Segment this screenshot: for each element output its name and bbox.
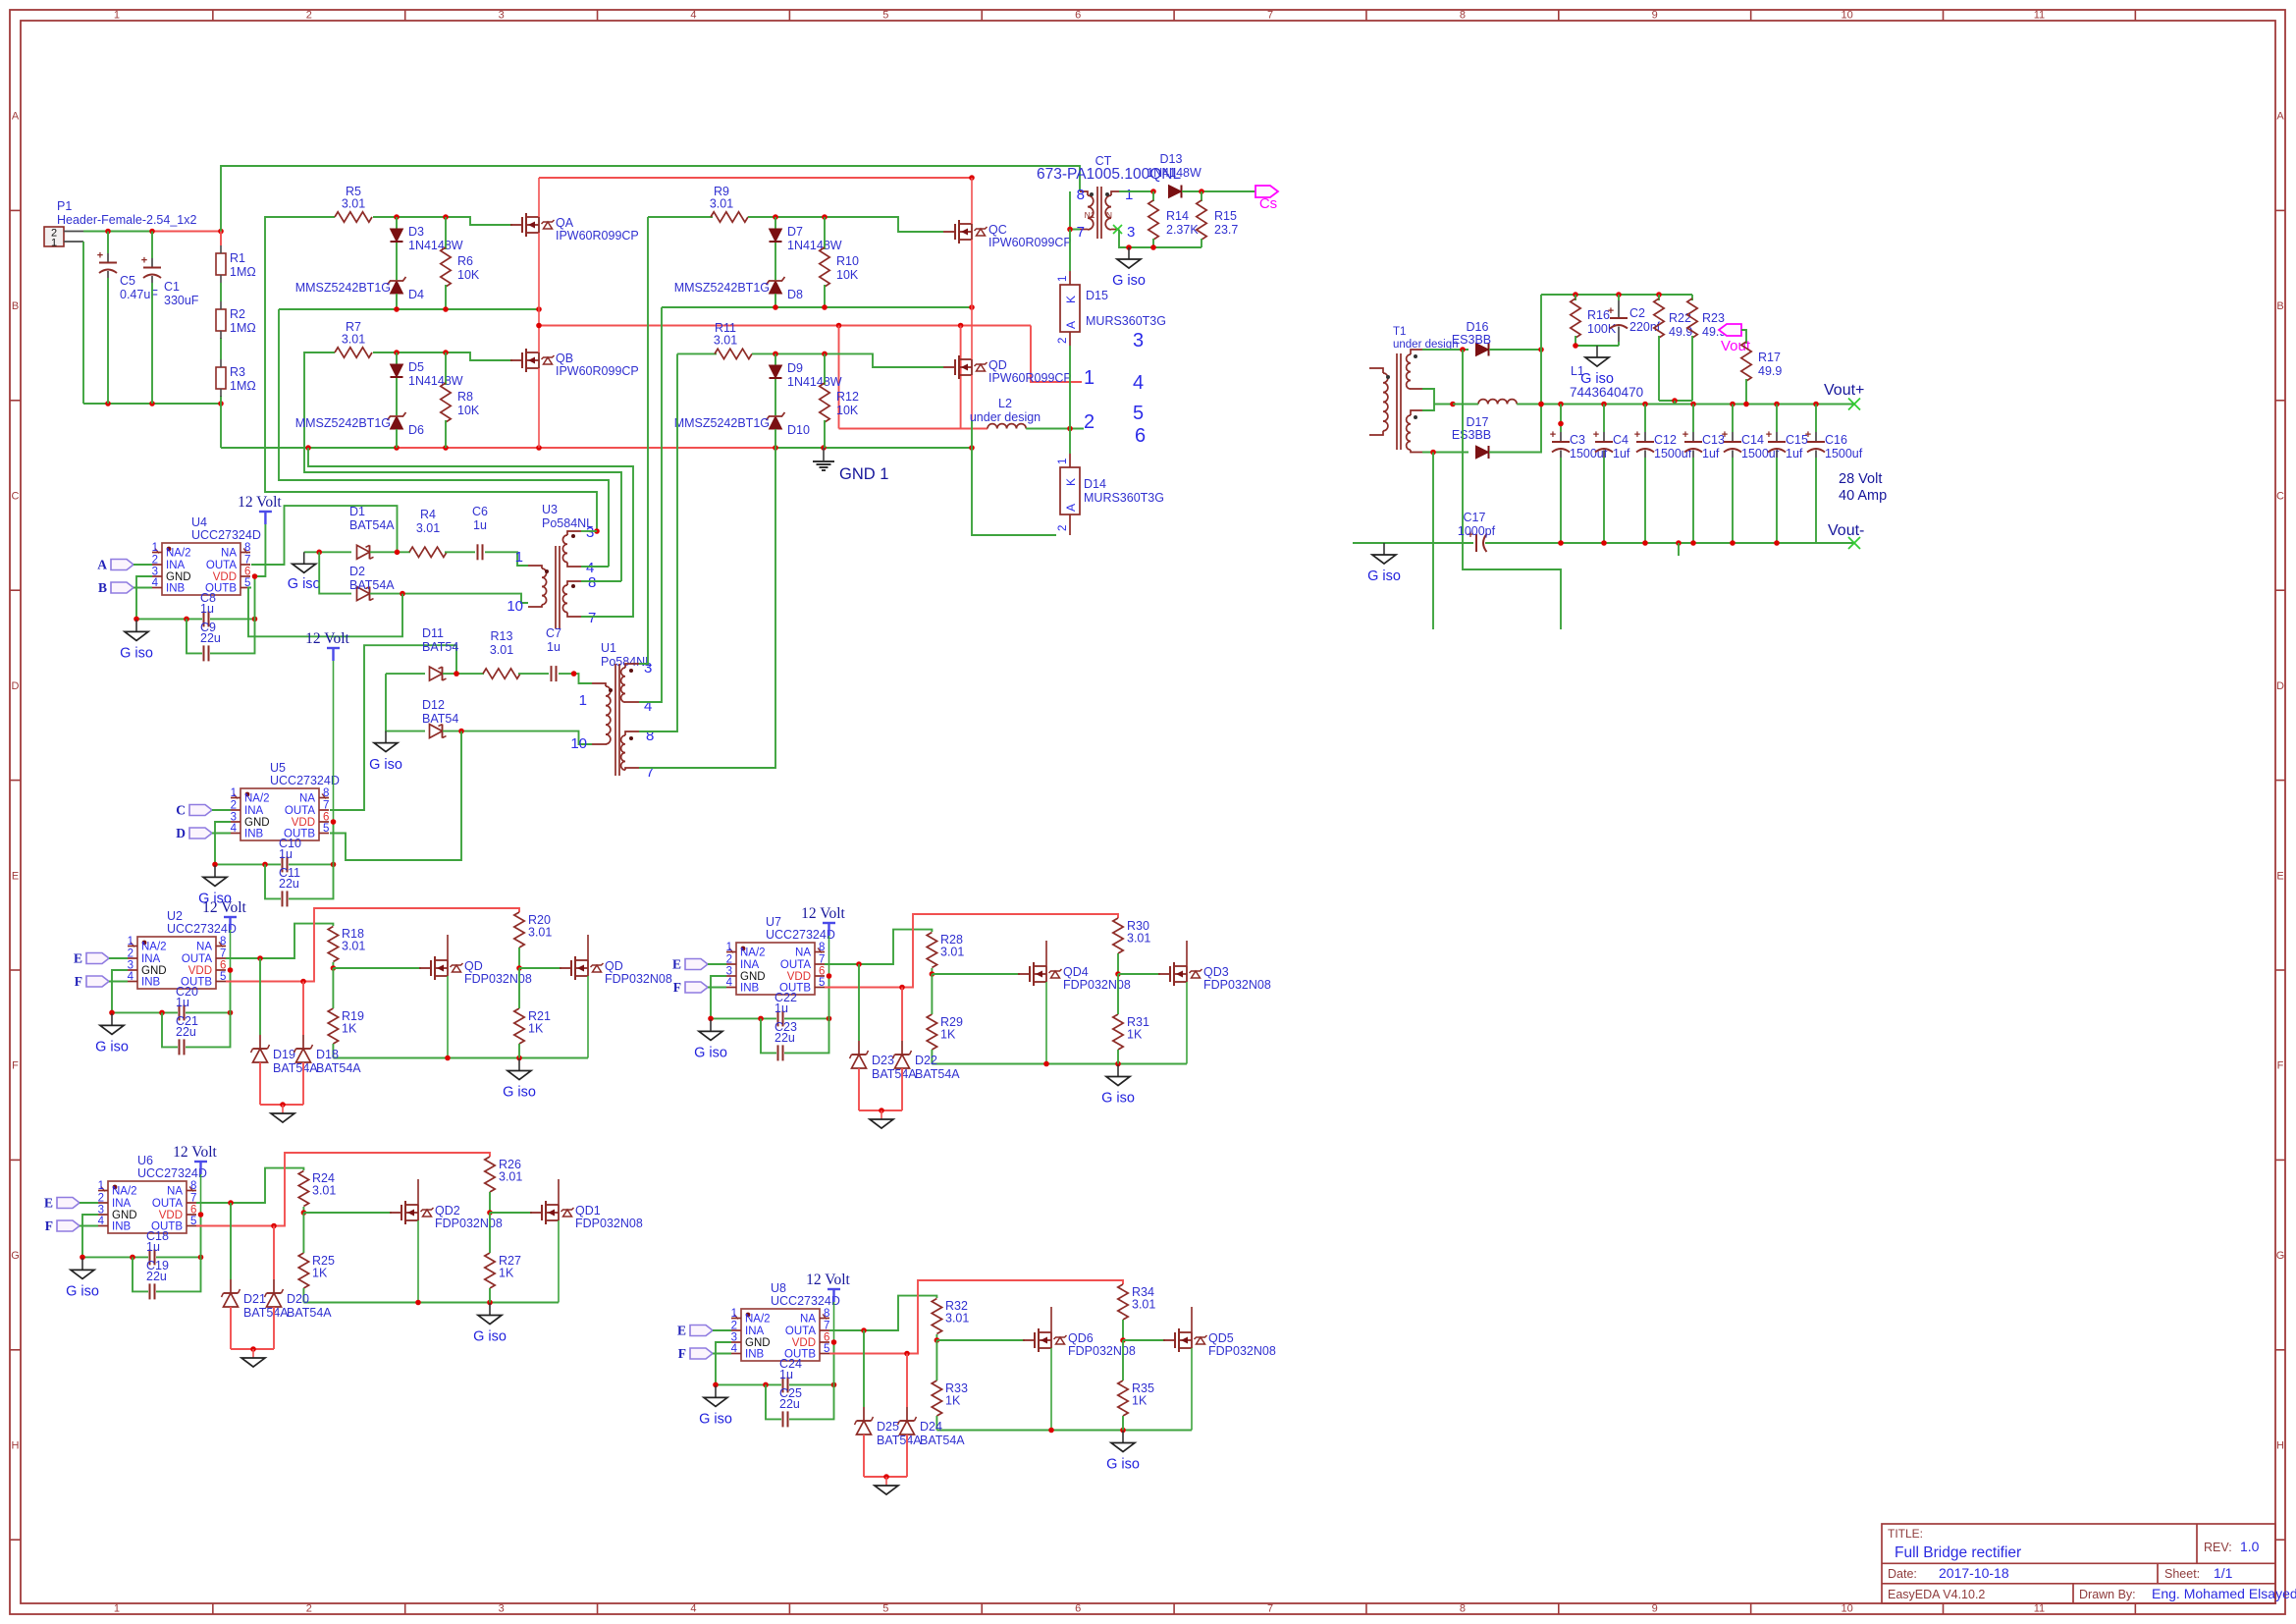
svg-text:D23: D23 <box>872 1054 894 1067</box>
net Vout- label <box>1828 522 1864 549</box>
svg-text:D10: D10 <box>787 423 810 437</box>
wire R5 to QA gate <box>373 214 512 225</box>
wire GND pin3 <box>82 1215 98 1257</box>
wire R9 left riser <box>648 216 713 218</box>
svg-text:3.01: 3.01 <box>312 1184 336 1198</box>
resistor R17 <box>1741 342 1783 405</box>
wire U3 pin7 riser <box>308 448 633 617</box>
svg-text:C7: C7 <box>546 626 561 640</box>
svg-text:IPW60R099CP: IPW60R099CP <box>556 364 639 378</box>
svg-text:BAT54A: BAT54A <box>349 518 395 532</box>
svg-text:D25: D25 <box>877 1420 899 1434</box>
svg-text:3.01: 3.01 <box>940 946 964 959</box>
svg-text:D6: D6 <box>408 423 424 437</box>
svg-text:R22: R22 <box>1669 311 1691 325</box>
diode D20 BAT54A <box>265 1226 333 1350</box>
ground G iso <box>198 865 232 906</box>
svg-text:6: 6 <box>819 966 825 978</box>
svg-text:10: 10 <box>507 598 523 615</box>
svg-text:G iso: G iso <box>95 1039 129 1055</box>
wire R lower lead1 <box>302 1213 304 1253</box>
svg-text:D2: D2 <box>349 565 365 578</box>
diode D13 1N4148W <box>1147 152 1201 198</box>
svg-text:MMSZ5242BT1G: MMSZ5242BT1G <box>674 416 770 430</box>
svg-text:R10: R10 <box>836 254 859 268</box>
svg-text:7: 7 <box>646 764 654 781</box>
svg-text:1: 1 <box>1057 276 1069 282</box>
svg-text:N1: N1 <box>1085 210 1095 220</box>
svg-text:6: 6 <box>1075 10 1081 22</box>
svg-text:C2: C2 <box>1629 306 1645 320</box>
power flag 12 Volt <box>238 494 282 524</box>
svg-text:1: 1 <box>152 542 158 554</box>
svg-text:1N4148W: 1N4148W <box>408 239 463 252</box>
svg-text:1K: 1K <box>499 1267 514 1280</box>
capacitor C23 <box>761 1018 829 1060</box>
svg-text:7: 7 <box>190 1193 196 1205</box>
svg-text:R16: R16 <box>1587 308 1610 322</box>
svg-text:3.01: 3.01 <box>342 940 365 953</box>
diode D11 BAT54 <box>386 626 458 680</box>
svg-text:C5: C5 <box>120 274 135 288</box>
svg-text:INB: INB <box>745 1349 765 1361</box>
svg-text:3: 3 <box>586 524 594 541</box>
svg-text:D20: D20 <box>287 1292 309 1306</box>
wire red drop 2 <box>960 326 962 429</box>
svg-text:1N4148W: 1N4148W <box>408 374 463 388</box>
svg-text:C4: C4 <box>1613 433 1629 447</box>
wire source rail <box>936 1428 1192 1434</box>
wire top net red segment <box>149 229 224 235</box>
transistor QB <box>510 309 639 448</box>
svg-text:1: 1 <box>98 1180 104 1192</box>
wire QA-QB mid red out <box>536 323 1031 329</box>
resistor R29 <box>927 1014 963 1050</box>
svg-text:NA/2: NA/2 <box>166 548 191 560</box>
resistor R15 <box>1197 191 1239 247</box>
wire R lower lead3 <box>489 1213 491 1253</box>
zener diode D4 <box>295 277 424 309</box>
ground G iso <box>369 731 402 773</box>
svg-text:G iso: G iso <box>369 757 402 773</box>
output flag Vout <box>1719 324 1751 354</box>
wire GND pin3 <box>711 976 726 1018</box>
svg-text:2: 2 <box>1084 411 1095 433</box>
diode D1 BAT54A <box>349 505 395 559</box>
svg-text:G: G <box>2276 1250 2285 1262</box>
svg-text:10: 10 <box>1841 1603 1852 1615</box>
svg-text:1: 1 <box>114 10 120 22</box>
svg-text:MMSZ5242BT1G: MMSZ5242BT1G <box>674 281 770 295</box>
svg-text:BAT54A: BAT54A <box>920 1434 965 1447</box>
diode D23 BAT54A <box>850 964 918 1110</box>
diode D2 BAT54A <box>349 565 395 601</box>
capacitor C14 <box>1722 405 1780 544</box>
wire R11 to QD gate <box>752 352 943 367</box>
svg-text:INA: INA <box>244 805 264 817</box>
svg-text:NA: NA <box>795 947 811 959</box>
svg-text:1u: 1u <box>279 847 293 861</box>
svg-text:G iso: G iso <box>699 1411 732 1427</box>
svg-text:2: 2 <box>1057 338 1069 344</box>
svg-text:E: E <box>12 870 19 882</box>
svg-text:QC: QC <box>988 223 1007 237</box>
svg-text:+: + <box>1682 429 1688 441</box>
svg-text:G iso: G iso <box>473 1329 507 1345</box>
input flag F <box>678 1346 731 1361</box>
wire decoupling rail <box>713 1382 781 1388</box>
wire R7 left riser <box>304 352 621 581</box>
svg-text:1000pf: 1000pf <box>1458 524 1496 538</box>
wire OUTA <box>226 924 333 961</box>
svg-text:C17: C17 <box>1464 511 1486 524</box>
svg-text:F: F <box>673 980 681 995</box>
svg-text:G iso: G iso <box>66 1283 99 1299</box>
svg-text:1K: 1K <box>940 1028 956 1042</box>
wire OUTB red <box>829 1280 1123 1356</box>
svg-text:INA: INA <box>141 953 161 965</box>
wire Vout+ rail <box>1517 402 1854 407</box>
svg-text:MMSZ5242BT1G: MMSZ5242BT1G <box>295 416 391 430</box>
wire P1 pin1 down <box>82 242 84 404</box>
svg-text:F: F <box>45 1218 53 1233</box>
svg-text:Cs: Cs <box>1259 195 1277 212</box>
transistor QA <box>510 178 639 309</box>
svg-text:+: + <box>141 255 147 267</box>
svg-text:R14: R14 <box>1166 209 1189 223</box>
svg-text:GND: GND <box>740 971 766 983</box>
wire QA drain red rail <box>539 175 975 181</box>
resistor R9 <box>710 185 748 222</box>
junction VDD <box>831 1339 837 1345</box>
resistor R21 <box>514 1008 551 1044</box>
svg-text:Sheet:: Sheet: <box>2164 1567 2200 1581</box>
svg-text:8: 8 <box>244 542 250 554</box>
power 12 Volt net <box>230 930 232 970</box>
svg-text:3: 3 <box>731 1332 737 1344</box>
capacitor C21 <box>162 1012 231 1055</box>
capacitor C12 <box>1634 405 1692 544</box>
svg-text:R12: R12 <box>836 390 859 404</box>
svg-text:7: 7 <box>323 800 329 812</box>
wire U1 pin4 riser <box>639 307 662 702</box>
svg-text:INB: INB <box>166 583 186 595</box>
svg-text:1: 1 <box>579 692 587 709</box>
transistor QD <box>333 935 531 1058</box>
svg-text:B: B <box>98 580 107 595</box>
svg-text:4: 4 <box>726 977 733 989</box>
svg-text:2.37K: 2.37K <box>1166 223 1199 237</box>
svg-text:UCC27324D: UCC27324D <box>771 1294 840 1308</box>
wire OUTA <box>825 930 932 967</box>
capacitor C20 <box>176 985 198 1020</box>
wire GND pin3 <box>215 822 231 864</box>
node 2 label <box>1084 411 1095 433</box>
svg-text:BAT54A: BAT54A <box>877 1434 922 1447</box>
svg-text:QD2: QD2 <box>435 1204 460 1218</box>
op-amp gate driver U4 <box>152 515 261 595</box>
svg-text:GND: GND <box>112 1210 137 1221</box>
svg-text:1: 1 <box>731 1308 737 1320</box>
wire D16 to riser <box>1489 347 1544 352</box>
svg-text:C: C <box>2276 491 2284 503</box>
svg-text:2: 2 <box>731 1321 737 1332</box>
ground <box>241 1349 265 1367</box>
svg-text:NA/2: NA/2 <box>112 1186 137 1198</box>
diode D12 BAT54 <box>422 698 458 738</box>
svg-text:U6: U6 <box>137 1154 153 1167</box>
svg-text:1: 1 <box>51 238 57 249</box>
svg-text:1MΩ: 1MΩ <box>230 321 256 335</box>
svg-text:P1: P1 <box>57 199 72 213</box>
resistor R28 <box>927 933 964 968</box>
svg-text:8: 8 <box>819 942 825 953</box>
capacitor C9 <box>187 619 255 661</box>
svg-text:D9: D9 <box>787 361 803 375</box>
power 12 Volt net <box>828 936 830 976</box>
svg-text:1.0: 1.0 <box>2240 1539 2260 1554</box>
svg-text:INA: INA <box>745 1326 765 1337</box>
svg-text:1500uf: 1500uf <box>1654 447 1692 460</box>
transistor QD5 <box>1123 1307 1276 1431</box>
wire R4 to C6 <box>445 551 475 553</box>
svg-text:1u: 1u <box>146 1240 160 1254</box>
wire VDD to decoupling rail <box>230 970 232 1012</box>
svg-text:D: D <box>2276 680 2284 692</box>
svg-text:F: F <box>75 974 82 989</box>
wire decoupling rail b <box>156 1255 203 1261</box>
svg-text:VDD: VDD <box>792 1337 816 1349</box>
svg-text:3.01: 3.01 <box>528 926 552 940</box>
title block <box>1882 1524 2296 1603</box>
svg-text:Drawn By:: Drawn By: <box>2079 1588 2136 1601</box>
transformer T1 under design <box>1369 326 1459 453</box>
svg-text:G iso: G iso <box>120 645 153 661</box>
svg-text:R6: R6 <box>457 254 473 268</box>
wire R13 to C7 <box>518 673 549 675</box>
svg-text:4: 4 <box>690 1603 696 1615</box>
wire U3 pin8 riser <box>581 580 621 582</box>
svg-text:VDD: VDD <box>213 571 237 583</box>
wire decoupling rail b <box>186 1010 233 1016</box>
svg-text:10K: 10K <box>836 268 859 282</box>
power flag 12 Volt <box>801 905 845 936</box>
wire R7 to QB gate <box>373 350 512 360</box>
op-amp gate driver U7 <box>726 915 835 995</box>
wire R lower lead3 <box>518 968 520 1008</box>
wire GND pin3 <box>136 576 152 619</box>
svg-text:GND: GND <box>141 965 167 977</box>
svg-text:2: 2 <box>1057 525 1069 531</box>
svg-text:1K: 1K <box>1132 1394 1148 1408</box>
svg-text:2017-10-18: 2017-10-18 <box>1939 1565 2009 1581</box>
wire OUTB loop U5 <box>330 731 461 860</box>
power flag 12 Volt <box>173 1144 217 1174</box>
svg-text:+: + <box>1766 429 1772 441</box>
svg-text:4: 4 <box>690 10 696 22</box>
node 5 label <box>1133 403 1144 424</box>
svg-text:QD3: QD3 <box>1203 965 1229 979</box>
wire dangling stub A <box>1432 453 1434 630</box>
wire net 1 stub <box>1031 326 1082 383</box>
svg-text:22u: 22u <box>146 1270 167 1283</box>
wire T1 top to D16 <box>1422 347 1468 352</box>
wire OUTA loop U4 <box>251 506 398 565</box>
svg-text:NA: NA <box>196 942 212 953</box>
svg-text:8: 8 <box>588 574 596 591</box>
resistor R4 <box>409 508 447 558</box>
wire gate1 node <box>934 1334 940 1343</box>
svg-text:OUTA: OUTA <box>780 959 811 971</box>
resistor R26 <box>485 1157 523 1192</box>
svg-text:3.01: 3.01 <box>490 643 513 657</box>
capacitor C5 <box>97 232 158 405</box>
wire R lower lead4 <box>518 1044 520 1058</box>
op-amp gate driver U8 <box>731 1281 840 1361</box>
wire diode gnd rail <box>859 1108 902 1113</box>
svg-text:G iso: G iso <box>1101 1091 1135 1107</box>
wire snubber rail <box>1541 292 1692 298</box>
transistor QD <box>943 307 1072 420</box>
ground <box>870 1110 893 1128</box>
ground G iso <box>1106 1432 1140 1473</box>
svg-text:3: 3 <box>128 960 133 972</box>
svg-text:QD4: QD4 <box>1063 965 1089 979</box>
wire R lower lead3 <box>1122 1340 1124 1380</box>
resistor R35 <box>1118 1380 1154 1416</box>
svg-text:D24: D24 <box>920 1420 942 1434</box>
svg-text:E: E <box>74 951 82 966</box>
wire VDD to decoupling rail <box>333 822 335 864</box>
svg-text:100K: 100K <box>1587 322 1617 336</box>
resistor R5 <box>335 185 372 222</box>
svg-text:9: 9 <box>1652 1603 1658 1615</box>
svg-text:5: 5 <box>824 1343 829 1355</box>
resistor R33 <box>932 1380 968 1416</box>
wire U1 pin7 riser <box>639 448 775 768</box>
wire R9 to QC gate <box>748 214 943 232</box>
svg-text:2: 2 <box>306 1603 312 1615</box>
svg-text:7: 7 <box>588 610 596 626</box>
junction VDD <box>228 967 234 973</box>
wire gate2 node <box>1120 1320 1126 1343</box>
svg-text:2: 2 <box>128 948 133 960</box>
svg-text:EasyEDA V4.10.2: EasyEDA V4.10.2 <box>1888 1588 1985 1601</box>
svg-text:E: E <box>677 1324 686 1338</box>
svg-text:6: 6 <box>1135 425 1146 447</box>
resistor R3 <box>216 359 256 397</box>
op-amp gate driver U6 <box>98 1154 207 1233</box>
svg-text:+: + <box>1593 429 1599 441</box>
diode D21 BAT54A <box>222 1203 290 1349</box>
svg-text:INA: INA <box>166 560 186 571</box>
svg-text:R4: R4 <box>420 508 436 521</box>
diode D16 ES3BB <box>1452 320 1491 356</box>
svg-text:F: F <box>678 1346 686 1361</box>
svg-text:UCC27324D: UCC27324D <box>167 922 237 936</box>
resistor R10 <box>820 217 859 307</box>
wire R divider column <box>220 232 222 405</box>
svg-text:MURS360T3G: MURS360T3G <box>1086 314 1166 328</box>
svg-text:D7: D7 <box>787 225 803 239</box>
wire R lower lead2 <box>332 1044 334 1058</box>
svg-text:1uf: 1uf <box>1702 447 1720 460</box>
svg-text:QB: QB <box>556 352 573 365</box>
svg-text:D1: D1 <box>349 505 365 518</box>
svg-text:8: 8 <box>1460 1603 1466 1615</box>
svg-text:VDD: VDD <box>188 965 212 977</box>
zener diode D10 <box>674 412 810 448</box>
wire gate2 node <box>516 947 522 971</box>
svg-text:11: 11 <box>2034 10 2045 22</box>
resistor R22 <box>1654 295 1693 401</box>
svg-text:8: 8 <box>646 728 654 744</box>
svg-text:R2: R2 <box>230 307 245 321</box>
inductor L1 <box>1478 364 1643 405</box>
svg-text:D22: D22 <box>915 1054 937 1067</box>
power 12 Volt net <box>333 661 335 822</box>
svg-text:D4: D4 <box>408 288 424 301</box>
svg-text:E: E <box>672 957 681 972</box>
svg-text:REV:: REV: <box>2204 1541 2232 1554</box>
svg-text:Eng. Mohamed Elsayed: Eng. Mohamed Elsayed <box>2152 1586 2296 1601</box>
wire D15 to L2 node <box>1069 346 1071 429</box>
wire R lower lead3 <box>1117 974 1119 1014</box>
ground G iso <box>1367 543 1401 584</box>
svg-text:R8: R8 <box>457 390 473 404</box>
svg-text:G iso: G iso <box>1112 273 1146 289</box>
svg-text:2: 2 <box>98 1193 104 1205</box>
svg-text:10: 10 <box>570 735 587 752</box>
wire VDD to decoupling rail <box>833 1342 835 1384</box>
wire bottom net <box>83 401 224 406</box>
diode D22 BAT54A <box>893 988 961 1111</box>
wire D1 anode node <box>304 550 351 556</box>
junction VDD <box>252 573 258 579</box>
svg-text:C16: C16 <box>1825 433 1847 447</box>
svg-text:5: 5 <box>882 10 888 22</box>
svg-text:T1: T1 <box>1393 326 1406 338</box>
wire Vout- rail left <box>1353 542 1473 544</box>
svg-text:FDP032N08: FDP032N08 <box>1208 1344 1276 1358</box>
wire R lower lead4 <box>1122 1416 1124 1431</box>
svg-text:ES3BB: ES3BB <box>1452 333 1491 347</box>
input flag E <box>672 957 726 972</box>
svg-text:U7: U7 <box>766 915 781 929</box>
wire mid A riser <box>279 309 609 567</box>
svg-text:INB: INB <box>740 983 760 995</box>
svg-text:MMSZ5242BT1G: MMSZ5242BT1G <box>295 281 391 295</box>
svg-text:2: 2 <box>306 10 312 22</box>
svg-text:4: 4 <box>152 577 159 589</box>
junction VDD <box>331 819 337 825</box>
wire to Vout rail <box>1674 401 1676 405</box>
svg-text:1N4148W: 1N4148W <box>787 239 842 252</box>
svg-text:1K: 1K <box>528 1022 544 1036</box>
svg-text:3.01: 3.01 <box>342 197 365 211</box>
svg-text:3.01: 3.01 <box>342 333 365 347</box>
resistor R12 <box>820 353 859 448</box>
wire gate2 node <box>1115 953 1121 977</box>
wire source rail <box>333 1056 588 1061</box>
input flag E <box>677 1324 731 1338</box>
input flag F <box>673 980 726 995</box>
wire source rail <box>303 1300 559 1306</box>
transistor QD4 <box>932 941 1130 1064</box>
svg-text:4: 4 <box>731 1343 738 1355</box>
diode D15 MURS360T3G <box>1057 230 1166 347</box>
svg-text:IPW60R099CP: IPW60R099CP <box>988 371 1072 385</box>
